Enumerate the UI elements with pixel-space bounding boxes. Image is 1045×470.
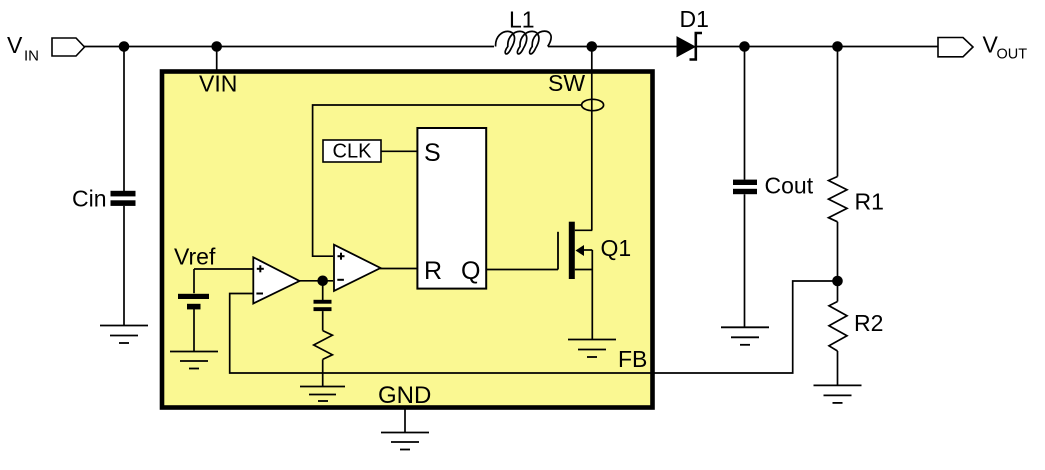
node junction dot compensation tap — [317, 276, 328, 287]
svg-text:R1: R1 — [855, 189, 884, 215]
ground for R2 — [814, 385, 862, 403]
capacitor Cout — [744, 47, 746, 180]
node junction dot R1 tap — [832, 41, 843, 52]
svg-text:Cin: Cin — [72, 186, 107, 212]
wire CLK to S — [381, 150, 417, 152]
svg-text:Q1: Q1 — [601, 235, 632, 261]
svg-text:R2: R2 — [854, 310, 883, 336]
latch U2 SR — [417, 128, 486, 289]
port VOUT — [938, 38, 973, 57]
ground for Vref — [170, 352, 218, 369]
capacitor Cin — [123, 47, 125, 192]
svg-text:OUT: OUT — [997, 47, 1028, 63]
svg-text:V: V — [7, 32, 23, 58]
battery Vref — [193, 269, 195, 293]
transistor Q1 — [557, 232, 559, 270]
wire feedback FB net — [230, 281, 838, 373]
resistor R1 — [837, 47, 839, 177]
node junction dot at Cin tap — [119, 41, 130, 52]
svg-text:VIN: VIN — [199, 71, 237, 97]
wire comparator output to R — [380, 268, 417, 270]
ground for Q1 source — [568, 340, 616, 358]
wire SW drop from rail to drain — [591, 47, 593, 231]
svg-text:IN: IN — [24, 48, 39, 65]
op-amp U3 error amplifier — [253, 257, 299, 303]
node SW pin ellipse — [582, 99, 604, 110]
wire Q output to gate — [486, 269, 558, 271]
ground for compensation network — [300, 387, 345, 402]
svg-text:Cout: Cout — [765, 173, 814, 199]
wire top rail Vin to L1 — [84, 46, 494, 48]
port VIN — [52, 38, 85, 56]
ground for Cout — [721, 327, 769, 345]
IC box U1 — [162, 72, 653, 408]
wire error amp output to comparator minus — [299, 280, 333, 282]
block CLK — [323, 140, 381, 162]
resistor R compensation — [314, 331, 333, 360]
wire top rail L1 to D1 — [548, 46, 678, 48]
wire SW to comparator plus input — [313, 105, 582, 256]
ground for IC GND — [381, 433, 429, 450]
capacitor C compensation — [322, 281, 324, 300]
svg-text:Vref: Vref — [174, 244, 216, 270]
node junction dot SW — [587, 41, 598, 52]
inductor L1 — [496, 31, 552, 54]
ground for Cin — [100, 326, 148, 344]
op-amp U4 PWM comparator — [334, 245, 381, 291]
svg-text:S: S — [424, 139, 441, 167]
wire VIN pin drop — [216, 47, 218, 71]
node junction dot FB divider — [832, 276, 843, 287]
node junction dot Cout tap — [739, 41, 750, 52]
svg-text:R: R — [424, 257, 442, 285]
svg-text:D1: D1 — [680, 6, 709, 32]
svg-text:Q: Q — [461, 257, 480, 285]
diode D1 (schottky) — [677, 37, 695, 57]
resistor R2 — [837, 281, 839, 302]
node junction dot at VIN pin — [211, 41, 222, 52]
wire top rail D1 to Vout port — [696, 46, 939, 48]
svg-text:L1: L1 — [509, 7, 535, 33]
svg-text:SW: SW — [548, 70, 585, 96]
svg-text:GND: GND — [378, 382, 431, 409]
svg-text:FB: FB — [618, 346, 647, 372]
svg-text:CLK: CLK — [333, 141, 373, 163]
wire GND pin drop — [404, 408, 406, 433]
